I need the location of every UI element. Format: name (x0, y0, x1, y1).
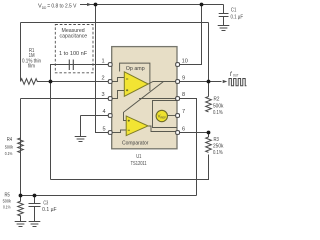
svg-text:REF: REF (160, 116, 166, 120)
pin 7 (176, 114, 180, 118)
svg-text:0.1 µF: 0.1 µF (231, 15, 244, 21)
wire pin2 step to opamp (112, 78, 125, 82)
label pins left (101, 59, 105, 133)
svg-text:500k: 500k (5, 144, 14, 150)
svg-text:6: 6 (182, 126, 185, 132)
wire left lower vertical (20, 99, 22, 196)
svg-text:0.1 µF: 0.1 µF (42, 207, 56, 213)
ground C3 (29, 222, 41, 227)
svg-text:film: film (28, 64, 35, 70)
capacitor C1 (219, 5, 229, 26)
op-amp U1a (124, 72, 148, 97)
wire R1 node down (50, 82, 52, 180)
wire pin3 (21, 98, 109, 100)
ground R5 (15, 222, 27, 227)
wire Vdd rail (80, 4, 224, 6)
wire pin3 step to opamp (112, 91, 125, 99)
node R5 (19, 194, 23, 198)
opamp plus (126, 89, 128, 91)
node R1 cap (49, 80, 53, 84)
pin 10 (176, 63, 180, 67)
svg-text:= 0.8 to 2.5 V: = 0.8 to 2.5 V (47, 4, 77, 10)
node R2 R3 (207, 131, 211, 135)
svg-text:R3: R3 (214, 137, 219, 143)
pin 5 (108, 131, 112, 135)
comparator plus (128, 120, 130, 122)
arrowhead fout (223, 80, 228, 83)
IC body U1 (112, 47, 177, 149)
label pins right (182, 59, 188, 133)
resistor R1 (21, 79, 51, 85)
ground pin4 (75, 137, 87, 142)
vref box (153, 101, 178, 128)
svg-text:capacitance: capacitance (60, 34, 88, 40)
node Vdd right (200, 3, 204, 7)
svg-text:C3: C3 (43, 200, 48, 206)
node Vdd left (94, 3, 98, 7)
wire feedback top (21, 22, 209, 24)
pin 3 (108, 97, 112, 101)
node fout (207, 80, 211, 84)
wire vref to pin7 (168, 115, 178, 117)
pin 4 (108, 114, 112, 118)
wire pin4 to ground (81, 116, 109, 137)
svg-text:4: 4 (102, 109, 105, 115)
wire internal diagonal (124, 82, 164, 121)
comparator U1b (126, 116, 148, 136)
svg-text:10: 10 (182, 59, 188, 65)
ground C1 (218, 26, 230, 31)
svg-text:OUT: OUT (233, 72, 239, 77)
svg-text:2: 2 (101, 76, 104, 82)
resistor R2 (206, 97, 212, 112)
svg-text:1: 1 (101, 59, 104, 65)
svg-text:Op amp: Op amp (126, 66, 145, 72)
wire R3 to pin6 node (208, 133, 210, 138)
svg-text:1 to 100 nF: 1 to 100 nF (59, 51, 88, 57)
svg-text:0.1%: 0.1% (213, 110, 223, 116)
opamp minus (126, 78, 128, 80)
svg-text:DD: DD (42, 5, 47, 10)
svg-text:250k: 250k (213, 143, 224, 149)
svg-text:500k: 500k (3, 199, 12, 205)
svg-text:5: 5 (102, 126, 105, 132)
wire Vdd arrowhead (87, 4, 92, 6)
svg-text:TS12011: TS12011 (131, 161, 147, 167)
pin 6 (176, 131, 180, 135)
pin 1 (108, 63, 112, 67)
vref circle (156, 110, 167, 121)
svg-text:C1: C1 (231, 7, 236, 13)
resistor R3 (206, 137, 212, 152)
svg-text:0.1%: 0.1% (5, 151, 13, 157)
wire pin9 to node (180, 81, 209, 83)
svg-text:R2: R2 (214, 97, 220, 103)
dashed box measured capacitance (55, 25, 93, 73)
wire arrow to fout (209, 81, 222, 83)
svg-text:8: 8 (182, 92, 185, 98)
svg-text:0.1%: 0.1% (213, 150, 223, 156)
wire R2 top to pin9 node (208, 82, 210, 97)
capacitor C3 (29, 196, 41, 222)
wire Vdd drop to pin10 (180, 5, 202, 65)
comparator minus (128, 129, 130, 131)
wire Vdd drop to pin5 (96, 5, 109, 133)
wire pin2 from R1 node (51, 81, 109, 83)
pin 8 (176, 97, 180, 101)
wire bottom feedback (51, 155, 209, 180)
svg-text:R4: R4 (7, 137, 13, 143)
svg-text:500k: 500k (213, 104, 224, 110)
wire feedback right vertical (208, 23, 210, 82)
capacitor measured (69, 60, 73, 71)
wire pin5 step to comparator (112, 130, 127, 133)
svg-text:7: 7 (182, 109, 185, 115)
wire cap to pin1 (51, 65, 109, 82)
wire pin8 drop (180, 99, 197, 196)
arrowhead Vdd (87, 3, 91, 6)
wire opamp out to pin9 (148, 82, 177, 85)
op-amp section box (120, 63, 150, 91)
svg-text:3: 3 (101, 92, 104, 98)
squarewave fout (229, 79, 246, 86)
svg-text:R5: R5 (5, 193, 11, 199)
resistor R5 (18, 196, 24, 222)
svg-text:0.1%: 0.1% (3, 205, 11, 211)
wire pin8 internal (139, 98, 177, 100)
pin squares left (108, 63, 179, 135)
wire left upper vertical to R1 (20, 23, 22, 82)
wire comparator out to pin6 (148, 126, 177, 132)
pin 2 (108, 80, 112, 84)
svg-text:U1: U1 (136, 154, 141, 160)
resistor R4 (18, 138, 24, 153)
wire pin6 to node (180, 132, 209, 134)
node C3 (33, 194, 37, 198)
svg-text:9: 9 (182, 76, 185, 82)
wire bottom ground rail (21, 195, 197, 197)
pin 9 (176, 80, 180, 84)
svg-text:Comparator: Comparator (122, 141, 149, 147)
